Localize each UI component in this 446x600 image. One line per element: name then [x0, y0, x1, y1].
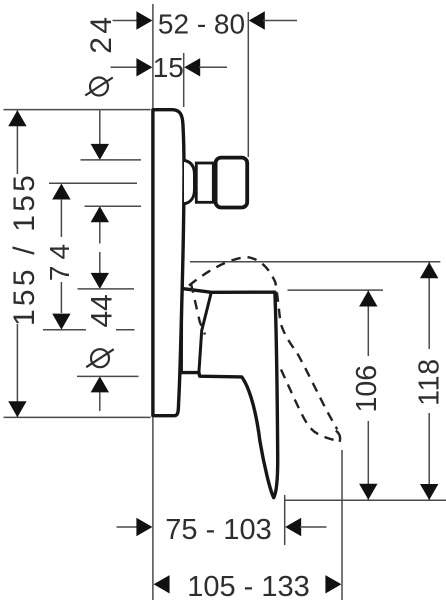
svg-text:105 - 133: 105 - 133 — [187, 571, 310, 600]
reference line bottom (handle tip level) — [285, 499, 446, 501]
top reference line — [4, 109, 151, 111]
cartridge neck — [196, 163, 216, 202]
dimension diameter 44 — [99, 252, 101, 273]
svg-text:74: 74 — [44, 238, 75, 281]
dimension 118 — [428, 262, 430, 349]
svg-text:44: 44 — [85, 294, 118, 327]
dimension 52-80 — [247, 12, 249, 157]
dimension 74 — [52, 184, 70, 200]
svg-text:15: 15 — [153, 52, 184, 83]
svg-text:155 / 155: 155 / 155 — [8, 172, 41, 326]
handle lever (solid) — [181, 288, 278, 497]
svg-text:52 - 80: 52 - 80 — [158, 9, 245, 40]
bottom reference line (plate) — [4, 416, 151, 418]
dimension 105-133 — [341, 450, 343, 600]
handle base inner edge — [199, 292, 211, 372]
dashed handle inner edge (raised position, visible over base) — [191, 284, 205, 335]
knob — [216, 158, 248, 208]
wall extension line — [152, 4, 154, 108]
escutcheon plate — [153, 110, 184, 416]
svg-text:106: 106 — [351, 365, 383, 413]
svg-text:118: 118 — [413, 358, 445, 406]
reference line 106 top — [288, 289, 384, 291]
dimension 15 — [183, 53, 185, 107]
dashed handle tip (raised position) — [336, 431, 340, 442]
dimension 155/155 — [16, 111, 18, 175]
reference line 118 top — [190, 261, 440, 263]
dashed handle outline (raised position) — [189, 257, 340, 441]
dimension 106 — [367, 290, 369, 356]
dimension 75-103 — [284, 495, 286, 545]
svg-text:75 - 103: 75 - 103 — [165, 514, 271, 546]
svg-text:24: 24 — [85, 13, 118, 53]
sleeve bulge — [184, 160, 195, 204]
dimension diameter 24 — [99, 110, 101, 144]
